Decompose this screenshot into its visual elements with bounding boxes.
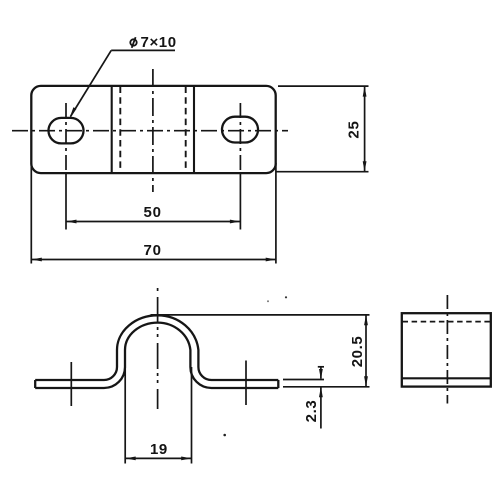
svg-text:7×10: 7×10	[141, 34, 177, 51]
svg-text:2.3: 2.3	[303, 400, 320, 423]
svg-text:20.5: 20.5	[349, 336, 366, 368]
svg-text:25: 25	[346, 120, 363, 138]
svg-text:70: 70	[144, 242, 162, 259]
svg-text:19: 19	[150, 441, 168, 458]
svg-text:50: 50	[144, 204, 162, 221]
